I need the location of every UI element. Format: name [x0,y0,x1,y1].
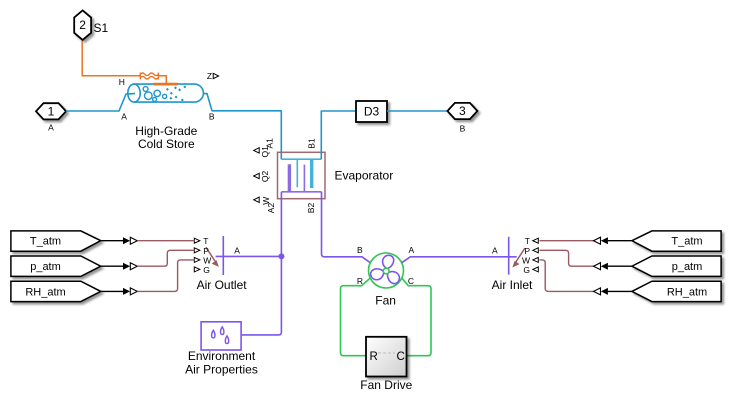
svg-text:T: T [203,236,208,246]
svg-text:T_atm: T_atm [671,236,702,248]
wire P brown [137,250,194,266]
Air Outlet arrow [206,247,219,267]
svg-text:A: A [408,245,414,255]
wire tank B to evaporator A1 [204,94,281,160]
converter triangles T right [594,237,601,244]
svg-text:Z: Z [207,71,212,81]
wire orange S1 to H [82,41,140,76]
svg-text:R: R [370,351,378,363]
Air Outlet port triangles [194,238,200,272]
evaporator purple coil [282,164,322,192]
svg-text:P: P [524,246,530,256]
wire evaporator B2 to fan B [322,192,371,263]
port 1 [36,103,66,133]
fan purple A wire to air inlet [402,257,517,263]
wire W brown [137,260,194,292]
svg-text:Environment: Environment [188,349,256,363]
svg-text:2: 2 [79,18,86,32]
converter triangles T [123,237,130,244]
High-Grade Cold Store tank [128,84,204,102]
svg-text:Q2: Q2 [260,171,270,183]
svg-text:G: G [203,265,210,275]
evaporator blue coil [281,159,321,188]
right source RH_atm [632,281,721,301]
svg-text:B: B [460,123,466,133]
wire p_atm black [101,265,123,267]
svg-text:1: 1 [48,104,55,118]
right source T_atm [632,231,721,251]
wire RH_atm black [101,290,123,292]
tank H port bar [153,83,178,86]
wire orange resistor to tank H port [158,76,166,84]
wire D3 to port 3 [387,110,447,112]
svg-text:C: C [397,351,405,363]
Air Inlet icon [508,237,510,275]
wire W right brown [540,260,594,292]
svg-text:Fan Drive: Fan Drive [360,378,412,392]
wire P right brown [540,250,594,266]
wire T right brown [540,240,594,242]
Air Inlet port triangles [533,238,539,272]
svg-text:Air Outlet: Air Outlet [197,278,248,292]
Air Outlet icon [222,236,224,275]
wire P right black [608,265,632,267]
svg-text:B: B [209,112,215,122]
left source RH_atm [11,281,101,301]
fan blades [369,254,401,286]
svg-text:p_atm: p_atm [30,261,61,273]
droplets [212,327,229,344]
svg-text:Air Inlet: Air Inlet [492,278,533,292]
left source T_atm [11,231,101,251]
svg-text:D3: D3 [364,105,380,119]
svg-text:Fan: Fan [375,294,396,308]
svg-text:B1: B1 [307,138,317,149]
Fan circle [369,253,404,288]
converter triangles RH right [594,288,601,295]
svg-text:High-Grade: High-Grade [135,124,197,138]
evaporator wire B1 up [321,111,356,159]
svg-text:A: A [48,123,54,133]
svg-text:Evaporator: Evaporator [335,169,394,183]
svg-text:RH_atm: RH_atm [667,286,707,298]
wire port1 to tank A [66,94,135,111]
fan hub [383,268,389,274]
svg-text:A: A [492,245,498,255]
svg-text:Air Properties: Air Properties [185,362,258,376]
wire T_atm black [101,240,123,242]
green wire fan R to fan drive R [341,278,371,356]
port 3 [447,103,477,133]
svg-text:W: W [522,255,530,265]
svg-text:A: A [234,245,240,255]
port S1 [74,10,108,40]
converter triangles P [123,263,130,270]
wire T brown [137,240,194,242]
right source p_atm [632,256,721,276]
converter triangles P right [594,263,601,270]
svg-text:B2: B2 [306,203,316,214]
svg-text:W: W [203,255,211,265]
evaporator port labels [260,138,317,213]
svg-text:G: G [523,265,530,275]
svg-text:C: C [408,276,414,286]
tank bubbles [143,87,166,102]
Environment Air Properties block [201,322,241,350]
svg-text:A: A [121,112,127,122]
svg-text:S1: S1 [94,21,109,35]
svg-text:T_atm: T_atm [30,236,61,248]
wire T right black [608,240,632,242]
wire evaporator A2 down to env junction [241,192,281,335]
evaporator unconnected port triangles [254,148,260,203]
converter triangles RH [123,288,130,295]
wire RH right black [608,290,632,292]
junction node [278,253,284,259]
evaporator border [278,152,326,198]
heater resistor icon [140,73,158,80]
Fan Drive block [366,337,407,377]
Air Inlet arrow [512,248,525,268]
svg-text:RH_atm: RH_atm [25,286,65,298]
svg-text:H: H [119,77,125,87]
svg-text:Q1: Q1 [260,146,270,158]
svg-text:3: 3 [459,104,466,118]
svg-text:p_atm: p_atm [672,261,703,273]
left source p_atm [11,256,101,276]
svg-text:P: P [203,246,209,256]
wire air outlet A to junction [216,255,282,257]
svg-text:T: T [525,236,530,246]
svg-text:B: B [357,245,363,255]
green wire fan C to fan drive C [402,278,431,356]
svg-text:W: W [261,197,271,205]
svg-text:Cold Store: Cold Store [138,137,195,151]
D3 block [356,101,387,122]
